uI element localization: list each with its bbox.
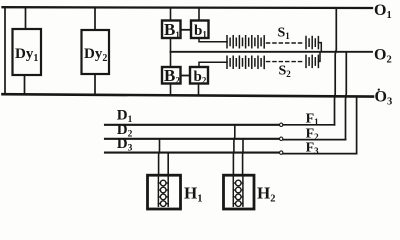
battery S2 left group — [227, 56, 264, 68]
wire: B1 top stub — [170, 8, 172, 21]
svg-text:O3: O3 — [375, 89, 393, 108]
contact circle on D1 — [280, 123, 283, 126]
wire: b1 to battery S1 lead — [199, 38, 227, 42]
lamp group H1 box — [148, 175, 181, 209]
svg-text:S2: S2 — [279, 64, 292, 80]
svg-text:O1: O1 — [374, 2, 392, 21]
svg-text:b2: b2 — [194, 69, 207, 86]
wire: Dy1 bottom stub — [24, 75, 26, 94]
svg-text:Dy1: Dy1 — [15, 46, 38, 64]
wire: fuse line F3 — [283, 153, 357, 155]
wire: S1 dashed middle — [267, 42, 305, 44]
wire: H2 feed from D1 (hops D2 and D3) — [233, 125, 234, 175]
wire: distribution line D1 — [105, 124, 279, 126]
svg-text:F3: F3 — [306, 140, 320, 156]
svg-text:H1: H1 — [184, 184, 202, 205]
contact circle on D2 — [280, 137, 283, 140]
wire: vertical V2 from O2 down to F2 (hops O3) — [345, 52, 348, 140]
regulator B2 — [162, 67, 181, 84]
svg-text:B1: B1 — [164, 20, 180, 40]
lamps in H2 — [233, 180, 243, 206]
wire: H1 inner left rail — [157, 177, 159, 207]
svg-text:Dy2: Dy2 — [84, 46, 107, 64]
wire: b2 to battery S2 lead — [199, 62, 227, 67]
wire: H2 feed from D2 (hops D3) — [242, 139, 244, 175]
wire: distribution line D3 — [105, 152, 279, 154]
wire: Dy1 top stub — [25, 7, 27, 29]
wire: middle line O2 from B1/B2 junction — [171, 51, 373, 53]
svg-text:b1: b1 — [194, 23, 207, 40]
wire: b1 top stub — [198, 8, 200, 21]
wire: H2 inner left rail — [232, 177, 234, 207]
wire: bottom bus O3 — [3, 94, 374, 96]
lamps in H1 — [158, 180, 168, 206]
wire: B2 bottom stub — [170, 84, 172, 95]
wire: H1 feed from D3 — [167, 153, 169, 175]
cell-switch b1 — [191, 21, 209, 39]
dynamo Dy2 — [82, 30, 110, 74]
wire: link B2-b2 — [181, 75, 191, 77]
svg-text:F1: F1 — [306, 112, 320, 128]
cell-switch b2 — [190, 67, 208, 84]
lamp group H2 box — [224, 175, 255, 209]
wire: H1 feed from D2 (hops D3) — [158, 139, 161, 175]
svg-text:S1: S1 — [278, 26, 291, 42]
battery S1 right group — [306, 37, 318, 49]
svg-text:B2: B2 — [164, 66, 180, 86]
battery S1 left group — [227, 36, 264, 48]
svg-text:O2: O2 — [374, 47, 392, 66]
wire: Dy2 bottom stub — [94, 74, 96, 94]
wire: Dy2 top stub — [94, 8, 96, 31]
wire: b2 bottom stub — [198, 84, 200, 95]
wire: vertical B1 to B2 — [170, 38, 172, 67]
svg-text:H2: H2 — [257, 184, 275, 205]
wire: H2 inner right rail — [242, 177, 244, 207]
wire: fuse line F1 — [283, 124, 334, 126]
wire: S2 dashed middle — [267, 61, 305, 63]
wire: H1 inner right rail — [167, 177, 169, 207]
wire: S2 end hook to O2 — [318, 52, 320, 62]
dynamo Dy1 — [13, 29, 42, 75]
dot above O3 — [378, 89, 380, 91]
wire: vertical V3 from O3 down to F3 — [356, 97, 358, 154]
wire: vertical V1 from O1 down to F1 (hops O2 and O3) — [335, 8, 337, 125]
wire: left vertical joining buses — [4, 7, 6, 94]
wire: top bus O1 — [3, 6, 373, 9]
contact circle on D3 — [280, 151, 283, 154]
battery S2 right group — [306, 55, 318, 67]
regulator B1 — [162, 21, 181, 39]
wire: distribution line D2 — [105, 138, 279, 140]
wire: fuse line F2 — [283, 139, 345, 141]
wire: S1 end hook to O2 — [318, 43, 321, 52]
wire: link B1-b1 — [181, 29, 192, 31]
